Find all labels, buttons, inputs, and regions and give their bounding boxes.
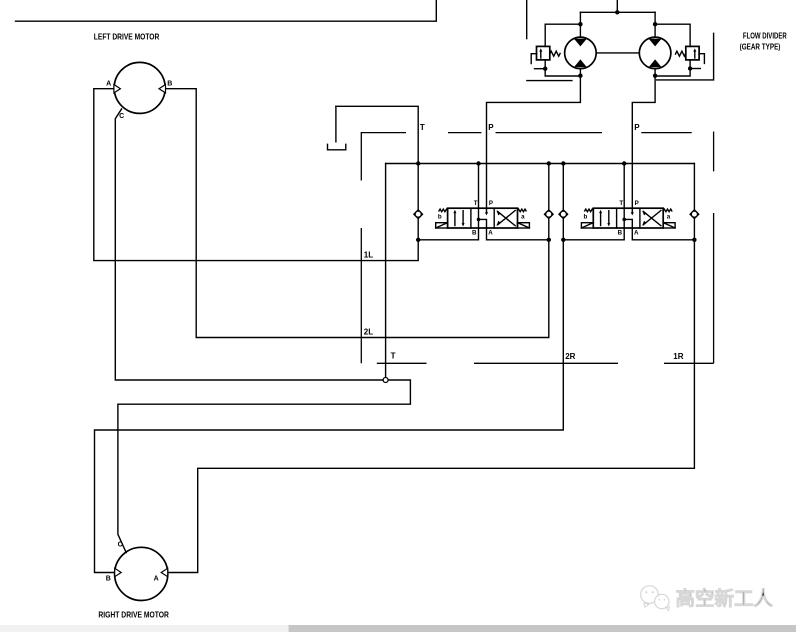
svg-text:P: P: [488, 123, 494, 132]
svg-text:B: B: [167, 81, 172, 88]
node work bus 1R: [692, 238, 696, 242]
svg-text:A: A: [634, 229, 639, 236]
flow divider enclosure dash right: [657, 33, 714, 80]
wire valve 1 T riser: [478, 164, 480, 209]
node work bus 1L: [416, 238, 420, 242]
svg-text:(GEAR TYPE): (GEAR TYPE): [740, 41, 781, 51]
svg-text:T: T: [619, 200, 623, 207]
footer dark bar: [289, 625, 796, 632]
wire divider shaft link: [596, 52, 639, 54]
svg-text:LEFT DRIVE MOTOR: LEFT DRIVE MOTOR: [94, 32, 160, 42]
wire 1R to right motor A: [167, 240, 694, 573]
svg-text:A: A: [154, 575, 159, 582]
orifice 1L: [414, 210, 423, 219]
node work bus 2L: [547, 238, 551, 242]
orifice 2R: [559, 210, 568, 219]
wire right tank stub: [690, 68, 700, 70]
footer light bar: [0, 625, 289, 632]
left drive motor: [114, 62, 166, 113]
node right riser tee: [653, 22, 657, 26]
node T drain junction circle: [383, 378, 388, 383]
relief valve left: [531, 46, 560, 63]
node left relief drain: [543, 67, 547, 71]
node work bus 2R: [561, 238, 565, 242]
node T rail at 2R branch: [561, 161, 565, 165]
wire top-left off-page: [16, 0, 437, 21]
wire work bus left: [418, 228, 549, 240]
wire left divider riser: [579, 12, 581, 37]
svg-text:a: a: [521, 214, 525, 221]
svg-text:P: P: [489, 200, 493, 207]
svg-text:P: P: [634, 123, 640, 132]
orifice 1R: [690, 210, 699, 219]
right drive motor: [115, 547, 168, 600]
node T rail at 2L branch: [547, 161, 551, 165]
wire 1L to left motor A: [94, 89, 418, 261]
svg-text:B: B: [618, 229, 623, 236]
flow divider enclosure dash bottom-left: [527, 80, 572, 82]
wire orifice drop 1L: [417, 164, 419, 240]
svg-text:b: b: [584, 214, 588, 221]
wire orifice drop 2R: [562, 164, 564, 240]
svg-text:1L: 1L: [364, 251, 373, 260]
wire tank to T rail: [336, 106, 418, 163]
svg-text:P: P: [635, 200, 639, 207]
wire orifice drop 2L: [548, 164, 550, 240]
svg-text:T: T: [474, 200, 478, 207]
node T rail at tank branch: [416, 161, 420, 165]
wire 2L to left motor B: [165, 89, 549, 338]
node left gear outlet: [578, 74, 582, 78]
manifold border left lower: [360, 228, 362, 363]
wire 2R to right motor B: [95, 240, 564, 573]
node T rail at valve 1: [476, 161, 480, 165]
svg-text:C: C: [119, 113, 124, 120]
wire left relief drain to divider: [545, 60, 580, 76]
wire work bus right: [563, 228, 694, 240]
solenoid directional valve left: [436, 200, 530, 236]
svg-text:T: T: [391, 352, 396, 361]
svg-text:a: a: [667, 214, 671, 221]
wire P line right to valve 2: [632, 69, 655, 209]
svg-text:高空新工人: 高空新工人: [676, 587, 774, 610]
watermark icon: [641, 586, 670, 611]
wire right divider riser: [654, 12, 656, 37]
wire right relief drain to divider: [655, 60, 690, 76]
node right relief drain: [688, 66, 692, 70]
svg-text:FLOW DIVIDER: FLOW DIVIDER: [743, 30, 787, 40]
svg-text:C: C: [118, 541, 123, 548]
node supply tee: [615, 10, 619, 14]
flow divider left gear section: [565, 37, 597, 69]
wire left relief branch: [545, 24, 580, 46]
relief valve right: [676, 46, 705, 63]
orifice 2L: [545, 210, 554, 219]
node right gear outlet: [653, 74, 657, 78]
manifold border right: [713, 132, 715, 364]
svg-text:2L: 2L: [364, 327, 373, 336]
node T rail at valve 2: [622, 161, 626, 165]
flow divider enclosure dash left: [526, 0, 528, 39]
manifold border top: [361, 133, 691, 181]
solenoid directional valve right: [581, 200, 675, 236]
svg-text:2R: 2R: [565, 352, 575, 361]
svg-text:1R: 1R: [673, 352, 683, 361]
wire T drain to right motor case: [118, 380, 411, 553]
flow divider right gear section: [639, 37, 671, 69]
wire P line left to valve 1: [487, 69, 581, 209]
svg-text:RIGHT DRIVE MOTOR: RIGHT DRIVE MOTOR: [98, 609, 168, 619]
manifold border bottom: [377, 362, 714, 364]
wire T drain to left motor case: [115, 109, 383, 380]
wire valve 2 T riser: [623, 164, 625, 209]
wire T rail (top bus): [386, 163, 695, 165]
wire orifice drop 1R: [693, 164, 695, 240]
svg-text:b: b: [438, 214, 442, 221]
tank symbol: [328, 106, 346, 150]
svg-text:B: B: [472, 229, 477, 236]
node left riser tee: [578, 22, 582, 26]
svg-text:T: T: [420, 123, 425, 132]
wire T drain drop: [385, 164, 387, 378]
svg-text:A: A: [488, 229, 493, 236]
svg-text:A: A: [106, 81, 111, 88]
wire right relief branch: [655, 24, 690, 46]
wire left tank stub: [535, 68, 546, 70]
svg-text:B: B: [106, 575, 111, 582]
wire pump supply from top: [580, 0, 655, 12]
